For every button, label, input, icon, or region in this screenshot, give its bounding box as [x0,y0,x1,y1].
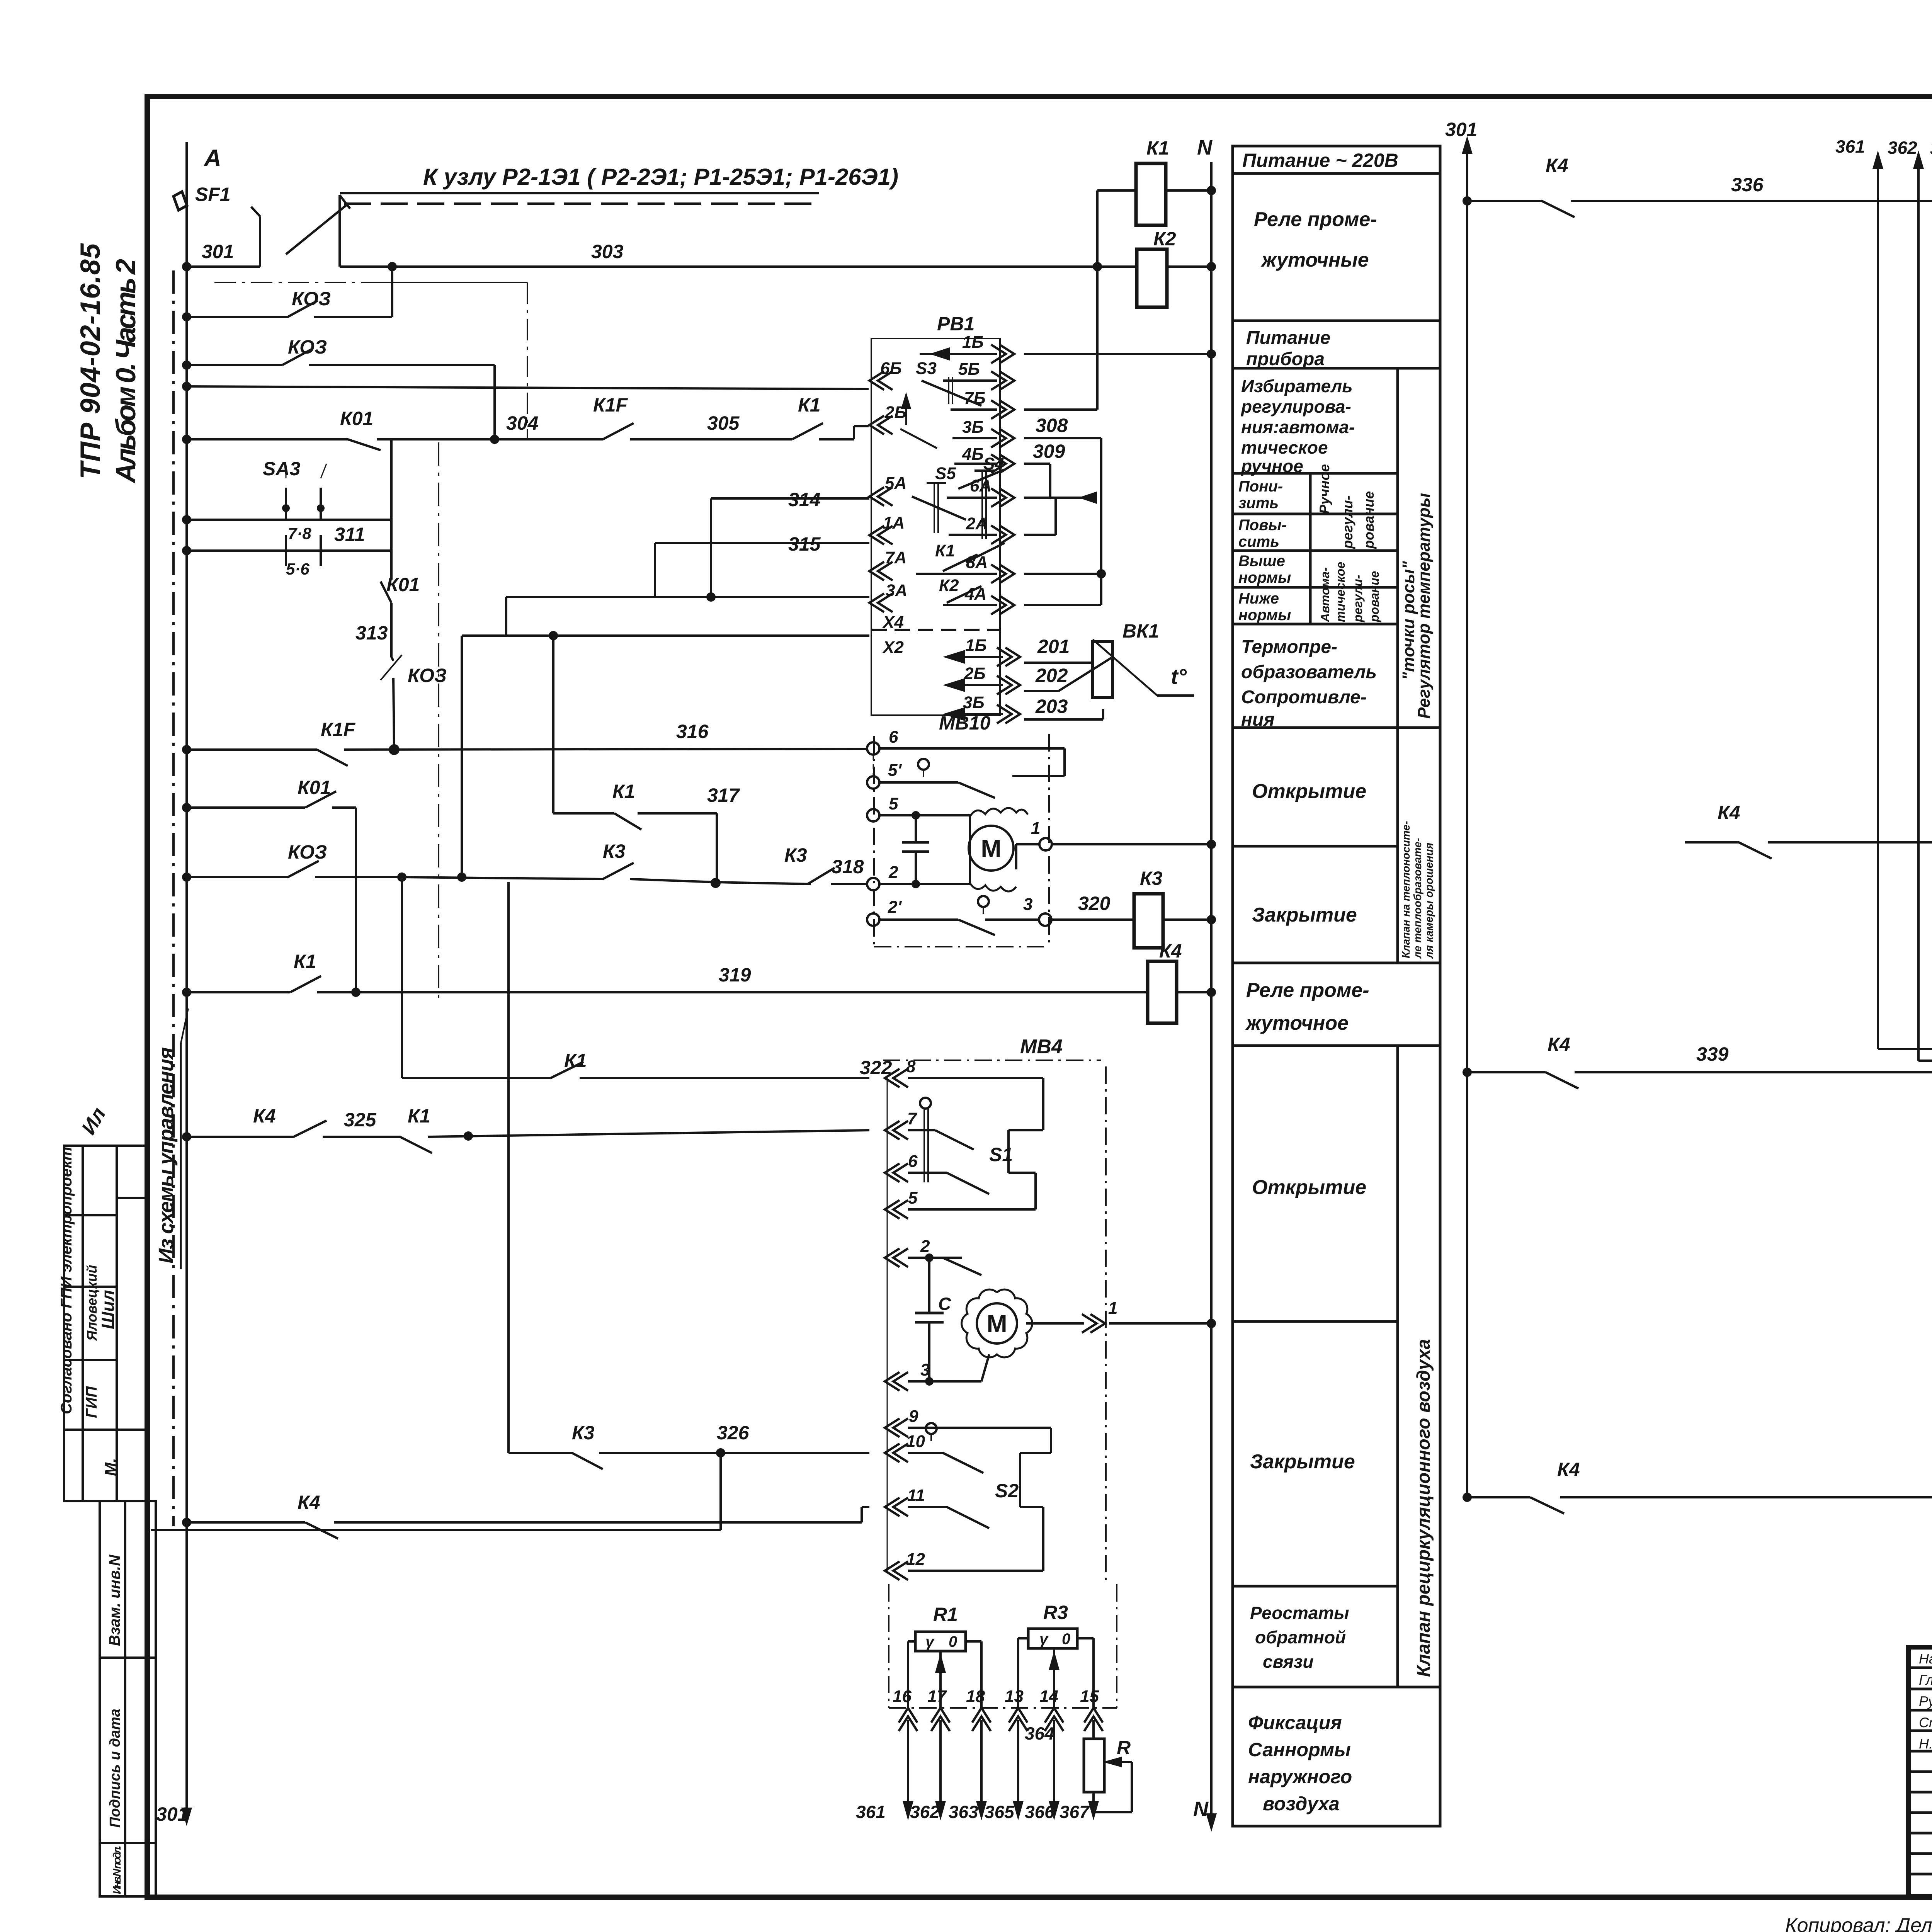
svg-text:9: 9 [909,1407,918,1426]
svg-text:Согласовано ГПИ электропроект: Согласовано ГПИ электропроект [58,1147,75,1414]
N bus left [1210,162,1213,1828]
svg-text:203: 203 [1035,696,1068,717]
svg-text:ручное: ручное [1240,456,1303,476]
svg-text:К4: К4 [1546,155,1568,176]
dash-dot enclosure MB4 [1105,1066,1107,1584]
contact K4 wire to MB6 pin 10 [1685,841,1739,844]
S3 contact [922,381,981,406]
svg-text:309: 309 [1033,440,1065,462]
svg-text:5Б: 5Б [958,360,980,379]
2B arrow up [905,398,907,425]
svg-text:325: 325 [344,1109,377,1131]
7A long wire [506,596,869,598]
svg-text:10: 10 [906,1432,925,1451]
svg-text:сить: сить [1238,533,1279,550]
svg-text:6: 6 [908,1152,918,1171]
capacitor C of MB10 [879,814,970,816]
svg-text:3: 3 [1023,895,1032,914]
301 bus right of table [1466,140,1468,1497]
8A wire [1024,573,1101,575]
svg-text:Питание: Питание [1246,328,1330,348]
svg-text:7А: 7А [885,548,906,567]
left-edge pins [869,371,893,390]
svg-text:жуточное: жуточное [1245,1012,1349,1034]
svg-text:Инв.N подл.: Инв.N подл. [111,1845,123,1894]
contact K4 wire 339 [1467,1071,1546,1073]
svg-text:4Б: 4Б [962,445,984,464]
svg-text:7Б: 7Б [964,389,986,408]
contact K4 wire 336 [1467,200,1542,202]
contact KO3 row / wire 318 start [187,876,288,878]
svg-text:2Б: 2Б [884,403,906,422]
svg-text:S2: S2 [995,1480,1019,1502]
svg-text:301: 301 [202,241,234,262]
svg-text:5·6: 5·6 [286,560,310,578]
svg-text:Х4: Х4 [882,613,904,632]
S4 switch [981,471,983,539]
svg-text:Питание ~ 220В: Питание ~ 220В [1242,150,1398,171]
svg-text:нормы: нормы [1238,607,1291,624]
K2 relay coil [1097,265,1137,268]
svg-text:ния:автома-: ния:автома- [1241,417,1355,437]
svg-text:КОЗ: КОЗ [288,841,327,863]
svg-text:К4: К4 [298,1492,320,1513]
rheostat R1 wiring [908,1640,915,1643]
svg-text:ле теплообразовате-: ле теплообразовате- [1412,838,1423,959]
svg-text:К4: К4 [1548,1034,1570,1055]
svg-text:12: 12 [906,1550,925,1569]
svg-text:Копировал: Дел–: Копировал: Дел– [1785,1914,1932,1932]
svg-text:Клапан на теплоносите-: Клапан на теплоносите- [1400,821,1412,958]
contact K1 wire 319 and relay coil K4 [187,991,290,993]
201/202/203 wires to BK1 [1024,662,1093,664]
svg-text:8: 8 [906,1057,916,1076]
svg-text:15: 15 [1080,1687,1099,1706]
svg-text:308: 308 [1036,415,1068,436]
contact K01 row [187,806,305,809]
svg-text:S3: S3 [916,359,937,378]
svg-text:17: 17 [927,1687,947,1706]
svg-text:МВ4: МВ4 [1020,1036,1063,1058]
svg-text:11: 11 [907,1486,925,1505]
motor M of MB10 [969,826,1014,871]
svg-text:Закрытие: Закрытие [1252,904,1357,926]
svg-text:336: 336 [1731,174,1764,196]
motor M of MB4 with capacitor C [908,1257,962,1259]
svg-text:К3: К3 [603,840,626,862]
svg-text:7: 7 [907,1109,918,1128]
svg-text:N: N [1193,1798,1209,1821]
svg-text:5: 5 [889,794,898,813]
svg-text:2': 2' [888,898,902,917]
svg-text:Ниже: Ниже [1238,590,1279,607]
limit switch 2' row and terminal 3 wire 320 [978,896,989,907]
svg-text:S5: S5 [935,464,956,483]
dash-dot enclosure [1048,734,1050,947]
svg-text:3Б: 3Б [962,418,984,437]
svg-text:связи: связи [1263,1651,1313,1672]
svg-text:регули-: регули- [1351,575,1365,622]
svg-text:Открытие: Открытие [1252,780,1366,803]
svg-text:К4: К4 [1159,940,1182,962]
svg-text:Реле проме-: Реле проме- [1254,208,1377,231]
contact K3 wire 326 [509,1452,572,1454]
svg-text:R: R [1117,1737,1131,1759]
4A wire [1024,604,1101,606]
svg-text:304: 304 [506,412,538,434]
svg-text:Гл. СПЕЦ.: Гл. СПЕЦ. [1919,1672,1932,1688]
6A out arrow [1024,497,1082,499]
svg-text:t°: t° [1171,664,1187,689]
MB4 labels [856,1036,1131,1822]
svg-text:16: 16 [893,1687,912,1706]
svg-text:1А: 1А [883,514,905,532]
BK1 thermal sensor [1092,641,1112,697]
inventory stamp strip [100,1501,156,1896]
svg-text:Ручное: Ручное [1316,464,1332,514]
svg-text:Саннормы: Саннормы [1248,1739,1351,1760]
svg-text:5: 5 [908,1189,918,1207]
svg-text:362: 362 [910,1802,940,1822]
svg-text:КОЗ: КОЗ [288,336,327,358]
svg-text:КОЗ: КОЗ [408,665,447,686]
svg-text:Х2: Х2 [882,638,904,657]
switch SA3 contacts 7-8 5-6, wire 311 [285,488,287,506]
svg-text:тическое: тическое [1241,437,1328,457]
svg-text:тическое: тическое [1333,562,1347,622]
svg-text:Реле проме-: Реле проме- [1246,979,1369,1002]
S5 switch [934,483,935,533]
svg-text:0: 0 [1062,1631,1070,1648]
svg-text:319: 319 [719,964,751,986]
svg-text:303: 303 [591,241,624,262]
svg-text:ния: ния [1241,709,1275,730]
svg-text:317: 317 [707,784,740,806]
svg-text:2: 2 [888,863,898,882]
right-edge pins [991,345,1014,363]
contact K1 wire 317 [552,636,554,813]
contact K4 bottom wire to MB7 terminal 6 [1467,1496,1530,1498]
svg-text:1: 1 [1031,819,1040,838]
contact K1 wire 322 [402,1077,551,1079]
svg-text:К2: К2 [939,576,959,595]
svg-text:3А: 3А [886,581,907,600]
svg-text:Пони-: Пони- [1238,478,1283,495]
svg-text:К4: К4 [1557,1459,1580,1480]
svg-text:К3: К3 [572,1422,595,1444]
svg-text:ТПР 904-02-16.85: ТПР 904-02-16.85 [75,243,106,479]
svg-text:313: 313 [355,622,388,644]
svg-text:Автома-: Автома- [1318,567,1332,622]
svg-text:жуточные: жуточные [1260,249,1369,271]
svg-text:К1: К1 [1146,137,1169,159]
svg-text:РВ1: РВ1 [937,313,975,335]
contact KO3 row 1 [187,316,288,318]
contacts K4 K1 wire 325 [187,1136,294,1138]
svg-text:301: 301 [1445,119,1477,140]
svg-text:рование: рование [1361,491,1377,549]
svg-text:К2: К2 [1153,228,1176,250]
underline for rotated text [180,1043,182,1269]
svg-text:1: 1 [1108,1299,1117,1318]
svg-text:Избиратель: Избиратель [1241,376,1353,396]
bottom X2 connector pins with left arrows [997,648,1020,666]
svg-text:наружного: наружного [1248,1766,1352,1787]
svg-text:К01: К01 [298,777,331,798]
svg-text:366: 366 [1025,1802,1054,1822]
svg-text:315: 315 [788,533,821,555]
svg-text:301: 301 [156,1803,188,1825]
svg-text:образователь: образователь [1241,662,1377,682]
svg-text:нормы: нормы [1238,569,1291,586]
svg-text:367: 367 [1060,1802,1090,1822]
svg-text:Клапан рециркуляционного в: Клапан рециркуляционного воздуха [1413,1339,1434,1677]
svg-text:К3: К3 [1140,867,1163,889]
svg-text:прибора: прибора [1246,349,1325,369]
svg-text:К1: К1 [408,1105,430,1127]
svg-text:рование: рование [1367,571,1381,622]
svg-text:С: С [938,1294,951,1314]
svg-text:К3: К3 [784,844,807,866]
limit switch S2 of MB4 [926,1423,937,1434]
long verticals 361/362/363 [1877,155,1879,1049]
svg-text:Рук. гр.: Рук. гр. [1919,1693,1932,1709]
svg-text:3Б: 3Б [963,693,985,712]
svg-text:311: 311 [334,524,365,545]
svg-text:Взам. инв.N: Взам. инв.N [106,1554,123,1646]
wire 301/303 row [187,265,260,268]
svg-text:"точки росы": "точки росы" [1399,561,1418,680]
svg-text:воздуха: воздуха [1263,1793,1340,1815]
1B wire to N bus [1024,353,1211,355]
svg-text:364: 364 [1025,1723,1054,1743]
svg-text:S4: S4 [983,454,1004,473]
svg-text:7·8: 7·8 [288,524,311,543]
X4/X2 dashed divider [871,629,1000,631]
svg-text:5А: 5А [885,474,906,493]
3B / 308 wire [1024,437,1101,439]
svg-text:Фиксация: Фиксация [1248,1712,1342,1733]
svg-text:ля камеры орошения: ля камеры орошения [1423,843,1435,959]
svg-text:361: 361 [856,1802,886,1822]
svg-text:361: 361 [1835,136,1865,156]
svg-text:Повы-: Повы- [1238,517,1287,534]
svg-text:Подпись и дата: Подпись и дата [107,1709,123,1828]
svg-text:К01: К01 [340,408,373,429]
svg-text:5': 5' [888,761,902,780]
dash-dot piece [888,1584,889,1708]
svg-text:Сопротивле-: Сопротивле- [1241,687,1367,707]
svg-text:202: 202 [1035,665,1068,686]
svg-text:Из схемы управления: Из схемы управления [155,1047,178,1264]
svg-text:SА3: SА3 [263,458,300,480]
svg-text:1Б: 1Б [965,636,987,655]
svg-text:Нач.отд.: Нач.отд. [1919,1651,1932,1667]
svg-text:К1: К1 [798,394,821,416]
svg-text:ВК1: ВК1 [1122,620,1159,642]
svg-text:К4: К4 [1718,802,1740,823]
svg-text:Яловецкий: Яловецкий [84,1265,100,1341]
svg-text:362: 362 [1888,138,1917,158]
svg-text:К1: К1 [564,1050,587,1071]
svg-text:1Б: 1Б [962,333,984,352]
PB1 / MB10 labels [294,119,1477,1821]
svg-text:К1: К1 [612,781,635,802]
svg-text:363: 363 [1930,138,1932,158]
svg-text:К4: К4 [253,1105,276,1127]
svg-text:6Б: 6Б [880,359,902,378]
svg-text:8А: 8А [966,553,988,572]
4B / 309 wire [1024,463,1050,465]
svg-text:N: N [1197,136,1213,159]
svg-text:Альбом 0. Часть 2: Альбом 0. Часть 2 [111,259,141,484]
svg-text:2А: 2А [966,514,988,533]
svg-text:МВ10: МВ10 [939,712,991,734]
svg-text:4А: 4А [964,585,986,604]
svg-text:365: 365 [985,1802,1015,1822]
svg-text:регули-: регули- [1340,495,1355,549]
svg-text:К узлу Р2-1Э1 ( Р2-2Э1; Р1-25: К узлу Р2-1Э1 ( Р2-2Э1; Р1-25Э1; Р1-26Э1… [423,164,898,190]
limit switch contact S (MB10) [918,759,929,770]
svg-text:13: 13 [1005,1687,1024,1706]
K uzlu heading [423,164,898,190]
svg-text:Открытие: Открытие [1252,1176,1366,1199]
svg-text:18: 18 [966,1687,985,1706]
2A wire [1024,534,1056,536]
svg-text:320: 320 [1078,893,1111,914]
svg-text:зить: зить [1238,495,1279,512]
svg-text:318: 318 [832,856,864,878]
svg-text:ГИП: ГИП [83,1386,100,1418]
svg-text:М: М [981,835,1001,862]
dash-dot cabinet boundary [172,270,175,1526]
contacts K01 KO3 wire 313 [390,551,393,580]
bus A [185,142,188,1822]
svg-text:322: 322 [860,1057,892,1078]
resistor R wire 367 [1092,1720,1095,1739]
svg-text:Реостаты: Реостаты [1250,1603,1349,1623]
internal arrows for 1B [920,353,997,355]
svg-text:0: 0 [949,1633,957,1650]
svg-text:КОЗ: КОЗ [292,288,331,310]
314/315 wires to S5 [711,497,869,500]
svg-text:6А: 6А [970,476,992,495]
contact K1F wire 316 [187,748,317,751]
svg-text:Закрытие: Закрытие [1250,1451,1355,1473]
svg-text:обратной: обратной [1255,1627,1346,1647]
rheostat R3 wiring [1018,1637,1028,1639]
svg-text:А: А [203,145,221,172]
wire 311 [187,549,391,552]
limit switch S1 of MB4 [883,1060,1101,1061]
svg-text:Выше: Выше [1238,553,1285,570]
approval mini-table [64,1146,149,1501]
svg-text:3: 3 [920,1361,930,1379]
svg-text:М.: М. [101,1458,119,1476]
svg-text:339: 339 [1696,1043,1729,1065]
svg-text:R3: R3 [1043,1602,1068,1623]
svg-text:К01: К01 [386,574,420,595]
svg-text:314: 314 [788,489,820,510]
svg-text:326: 326 [717,1422,750,1444]
3A long wire [462,634,869,637]
7B wire up to K2 branch [1024,408,1097,411]
svg-text:К1: К1 [935,541,955,560]
svg-text:R1: R1 [933,1604,958,1625]
svg-text:М: М [986,1310,1007,1338]
svg-text:Термопре-: Термопре- [1241,637,1337,657]
svg-text:γ: γ [1039,1631,1049,1648]
relay coil K3 wire 320 [1134,894,1163,948]
wire to PB1 pin 6B [187,386,869,389]
301 line from control circuit [58,1104,123,1894]
svg-text:Шил: Шил [98,1290,118,1329]
svg-text:2Б: 2Б [964,664,986,683]
K1 K2 contacts inside [943,554,978,571]
svg-text:6: 6 [889,728,898,747]
svg-text:S1: S1 [989,1144,1013,1165]
svg-text:Ст.техн.: Ст.техн. [1919,1714,1932,1730]
svg-text:2: 2 [920,1237,930,1256]
contacts K01 K1F K1, wires 304 305 306 [187,438,348,440]
svg-text:К1: К1 [294,951,316,972]
breaker SF1 [173,192,187,210]
svg-text:К1F: К1F [321,719,356,740]
contact KO3 row 2 [187,364,282,366]
svg-text:201: 201 [1037,636,1070,657]
connector pins 16 17 18 13 14 15 [899,1708,917,1731]
svg-text:SF1: SF1 [195,184,231,205]
svg-text:К1F: К1F [593,394,628,416]
svg-text:316: 316 [676,721,709,742]
wires 361 362 363 365 366 down arrows [907,1720,909,1816]
K1 relay coil [1096,190,1099,267]
svg-text:363: 363 [949,1802,978,1822]
contact K4 bottom wire [187,1521,305,1524]
svg-text:γ: γ [925,1633,935,1650]
svg-text:305: 305 [707,412,740,434]
connector pins column [885,1069,908,1087]
contacts K3 K3 wire 318 [402,877,603,879]
svg-text:14: 14 [1039,1687,1058,1706]
MB10 terminals 6 5' 5 2 2' [867,742,879,755]
svg-text:регулирова-: регулирова- [1240,396,1351,417]
svg-text:Н.контр.: Н.контр. [1919,1736,1932,1752]
